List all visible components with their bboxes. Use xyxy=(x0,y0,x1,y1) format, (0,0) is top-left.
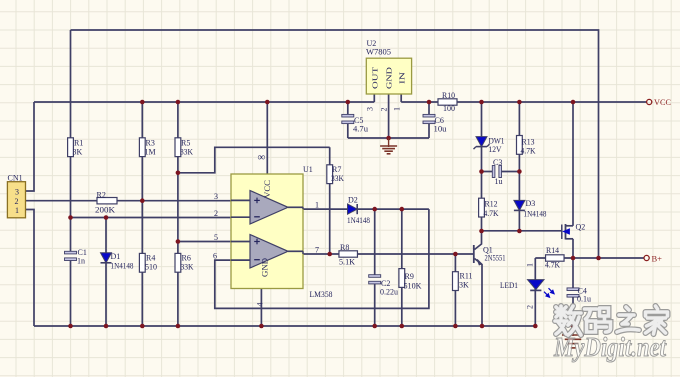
svg-text:C3: C3 xyxy=(493,158,502,167)
svg-text:1: 1 xyxy=(315,201,319,210)
svg-text:R9: R9 xyxy=(405,272,414,281)
svg-text:4.7K: 4.7K xyxy=(545,261,560,270)
svg-text:R8: R8 xyxy=(340,243,349,252)
svg-text:VCC: VCC xyxy=(263,180,272,198)
svg-text:2: 2 xyxy=(526,305,535,309)
svg-text:1N4148: 1N4148 xyxy=(111,262,134,271)
svg-text:W7805: W7805 xyxy=(366,48,391,57)
svg-text:10u: 10u xyxy=(434,125,447,134)
svg-text:100: 100 xyxy=(443,104,455,113)
svg-text:D2: D2 xyxy=(348,196,358,205)
svg-text:3: 3 xyxy=(366,107,375,111)
svg-text:5.1K: 5.1K xyxy=(339,258,355,267)
svg-text:R5: R5 xyxy=(181,139,190,148)
svg-text:∞: ∞ xyxy=(258,152,266,164)
svg-text:33K: 33K xyxy=(331,174,344,183)
svg-text:R1: R1 xyxy=(74,139,83,148)
svg-text:R12: R12 xyxy=(485,200,498,209)
svg-text:4.7u: 4.7u xyxy=(353,125,368,134)
svg-text:7: 7 xyxy=(315,246,319,255)
svg-text:LED1: LED1 xyxy=(500,281,518,290)
svg-text:1u: 1u xyxy=(495,177,503,186)
svg-text:GND: GND xyxy=(261,258,270,277)
svg-text:R14: R14 xyxy=(546,246,559,255)
svg-text:6: 6 xyxy=(213,252,217,261)
svg-text:U1: U1 xyxy=(303,165,313,174)
svg-text:R11: R11 xyxy=(460,272,473,281)
svg-text:R4: R4 xyxy=(146,254,155,263)
svg-text:GND: GND xyxy=(385,66,394,89)
svg-text:4: 4 xyxy=(256,303,265,307)
svg-text:3K: 3K xyxy=(459,281,469,290)
svg-text:33K: 33K xyxy=(180,148,193,157)
svg-text:4.7K: 4.7K xyxy=(521,147,536,156)
svg-text:510: 510 xyxy=(145,263,157,272)
svg-text:R3: R3 xyxy=(146,139,155,148)
svg-text:D1: D1 xyxy=(111,252,121,261)
svg-text:4.7K: 4.7K xyxy=(484,209,499,218)
svg-text:1N4148: 1N4148 xyxy=(524,210,547,219)
svg-text:3: 3 xyxy=(214,192,218,201)
svg-text:R10: R10 xyxy=(442,91,455,100)
svg-text:3: 3 xyxy=(15,188,19,197)
svg-text:OUT: OUT xyxy=(371,66,380,89)
svg-text:LM358: LM358 xyxy=(310,290,333,299)
svg-text:0.22u: 0.22u xyxy=(380,288,398,297)
svg-text:1: 1 xyxy=(526,263,535,267)
svg-text:510K: 510K xyxy=(404,282,422,291)
svg-text:1N4148: 1N4148 xyxy=(347,216,370,225)
svg-text:1M: 1M xyxy=(145,148,156,157)
svg-text:5: 5 xyxy=(214,233,218,242)
svg-text:1: 1 xyxy=(15,206,19,215)
svg-text:0.1u: 0.1u xyxy=(577,295,591,304)
svg-text:MyDigit.net: MyDigit.net xyxy=(553,332,667,362)
svg-text:R6: R6 xyxy=(182,254,191,263)
svg-text:2: 2 xyxy=(380,108,389,112)
svg-text:CN1: CN1 xyxy=(8,174,23,183)
svg-text:1: 1 xyxy=(393,107,402,111)
svg-text:1n: 1n xyxy=(77,257,85,266)
svg-text:VCC: VCC xyxy=(654,97,671,107)
svg-text:D3: D3 xyxy=(526,199,536,208)
svg-text:R2: R2 xyxy=(97,191,106,200)
svg-text:B+: B+ xyxy=(652,254,663,264)
svg-text:2: 2 xyxy=(214,209,218,218)
svg-text:R7: R7 xyxy=(332,165,341,174)
svg-text:200K: 200K xyxy=(95,206,115,215)
svg-text:Q2: Q2 xyxy=(576,223,586,232)
svg-text:R13: R13 xyxy=(522,138,535,147)
svg-text:33K: 33K xyxy=(181,263,194,272)
svg-text:3K: 3K xyxy=(73,148,83,157)
svg-text:2N5551: 2N5551 xyxy=(485,254,506,263)
svg-text:IN: IN xyxy=(398,71,407,84)
svg-text:12V: 12V xyxy=(489,145,502,154)
svg-text:2: 2 xyxy=(15,197,19,206)
